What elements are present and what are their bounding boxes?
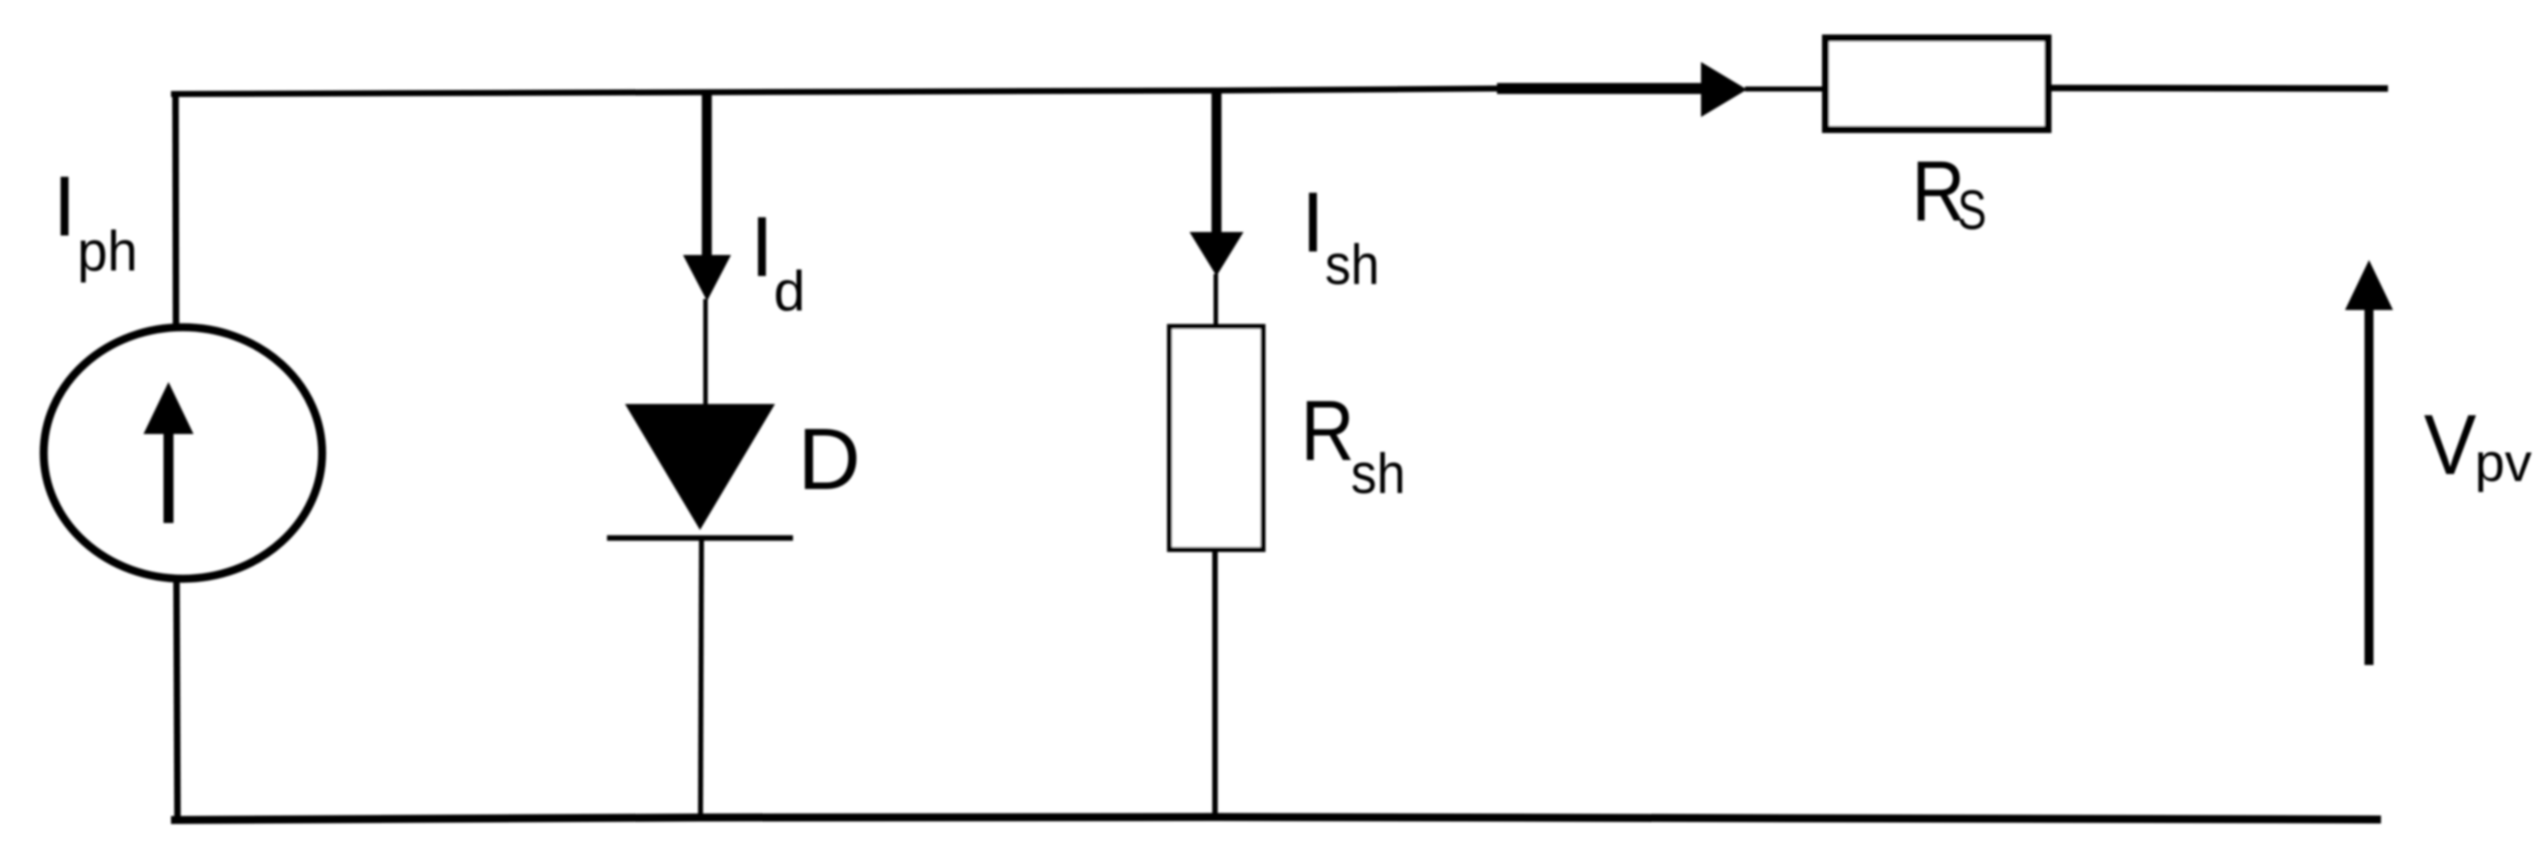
- label Id: [750, 200, 805, 323]
- label Iph: [53, 160, 138, 284]
- svg-text:pv: pv: [2475, 433, 2532, 493]
- svg-text:D: D: [798, 411, 861, 508]
- svg-text:R: R: [1301, 384, 1355, 479]
- wire left vertical bottom: [177, 581, 178, 819]
- voltage Vpv arrow: [2345, 260, 2393, 665]
- svg-text:sh: sh: [1325, 233, 1380, 297]
- diode D triangle: [625, 404, 775, 530]
- svg-text:V: V: [2424, 398, 2477, 493]
- svg-text:sh: sh: [1351, 442, 1406, 506]
- svg-text:d: d: [774, 260, 806, 324]
- label Ish: [1301, 175, 1379, 297]
- wire diode anode: [703, 299, 708, 406]
- current Id arrow: [683, 91, 731, 301]
- wire Rsh top lead: [1214, 274, 1219, 328]
- wire top bus: [171, 89, 1500, 95]
- wire bottom bus: [171, 817, 2381, 820]
- svg-text:ph: ph: [77, 220, 138, 284]
- svg-text:I: I: [53, 160, 77, 255]
- resistor Rs body: [1826, 38, 2049, 130]
- current Ipv arrow into Rs: [1497, 62, 1747, 117]
- wire Rs to output: [2052, 85, 2389, 92]
- label Rs: [1912, 144, 1987, 241]
- label Vpv: [2424, 398, 2532, 493]
- diode D cathode bar: [607, 535, 793, 541]
- current source Iph arrow: [144, 382, 194, 523]
- current Ish arrow: [1190, 92, 1244, 276]
- svg-text:I: I: [750, 200, 774, 295]
- svg-text:S: S: [1958, 178, 1987, 241]
- wire Rsh bottom lead: [1212, 550, 1218, 818]
- wire diode cathode to bottom: [701, 538, 702, 818]
- wire arrow to Rs: [1745, 87, 1823, 92]
- resistor Rsh body: [1170, 327, 1264, 550]
- current source Iph circle: [44, 327, 322, 578]
- svg-text:I: I: [1301, 175, 1325, 270]
- label Rsh: [1301, 384, 1406, 506]
- wire left vertical top: [172, 91, 179, 325]
